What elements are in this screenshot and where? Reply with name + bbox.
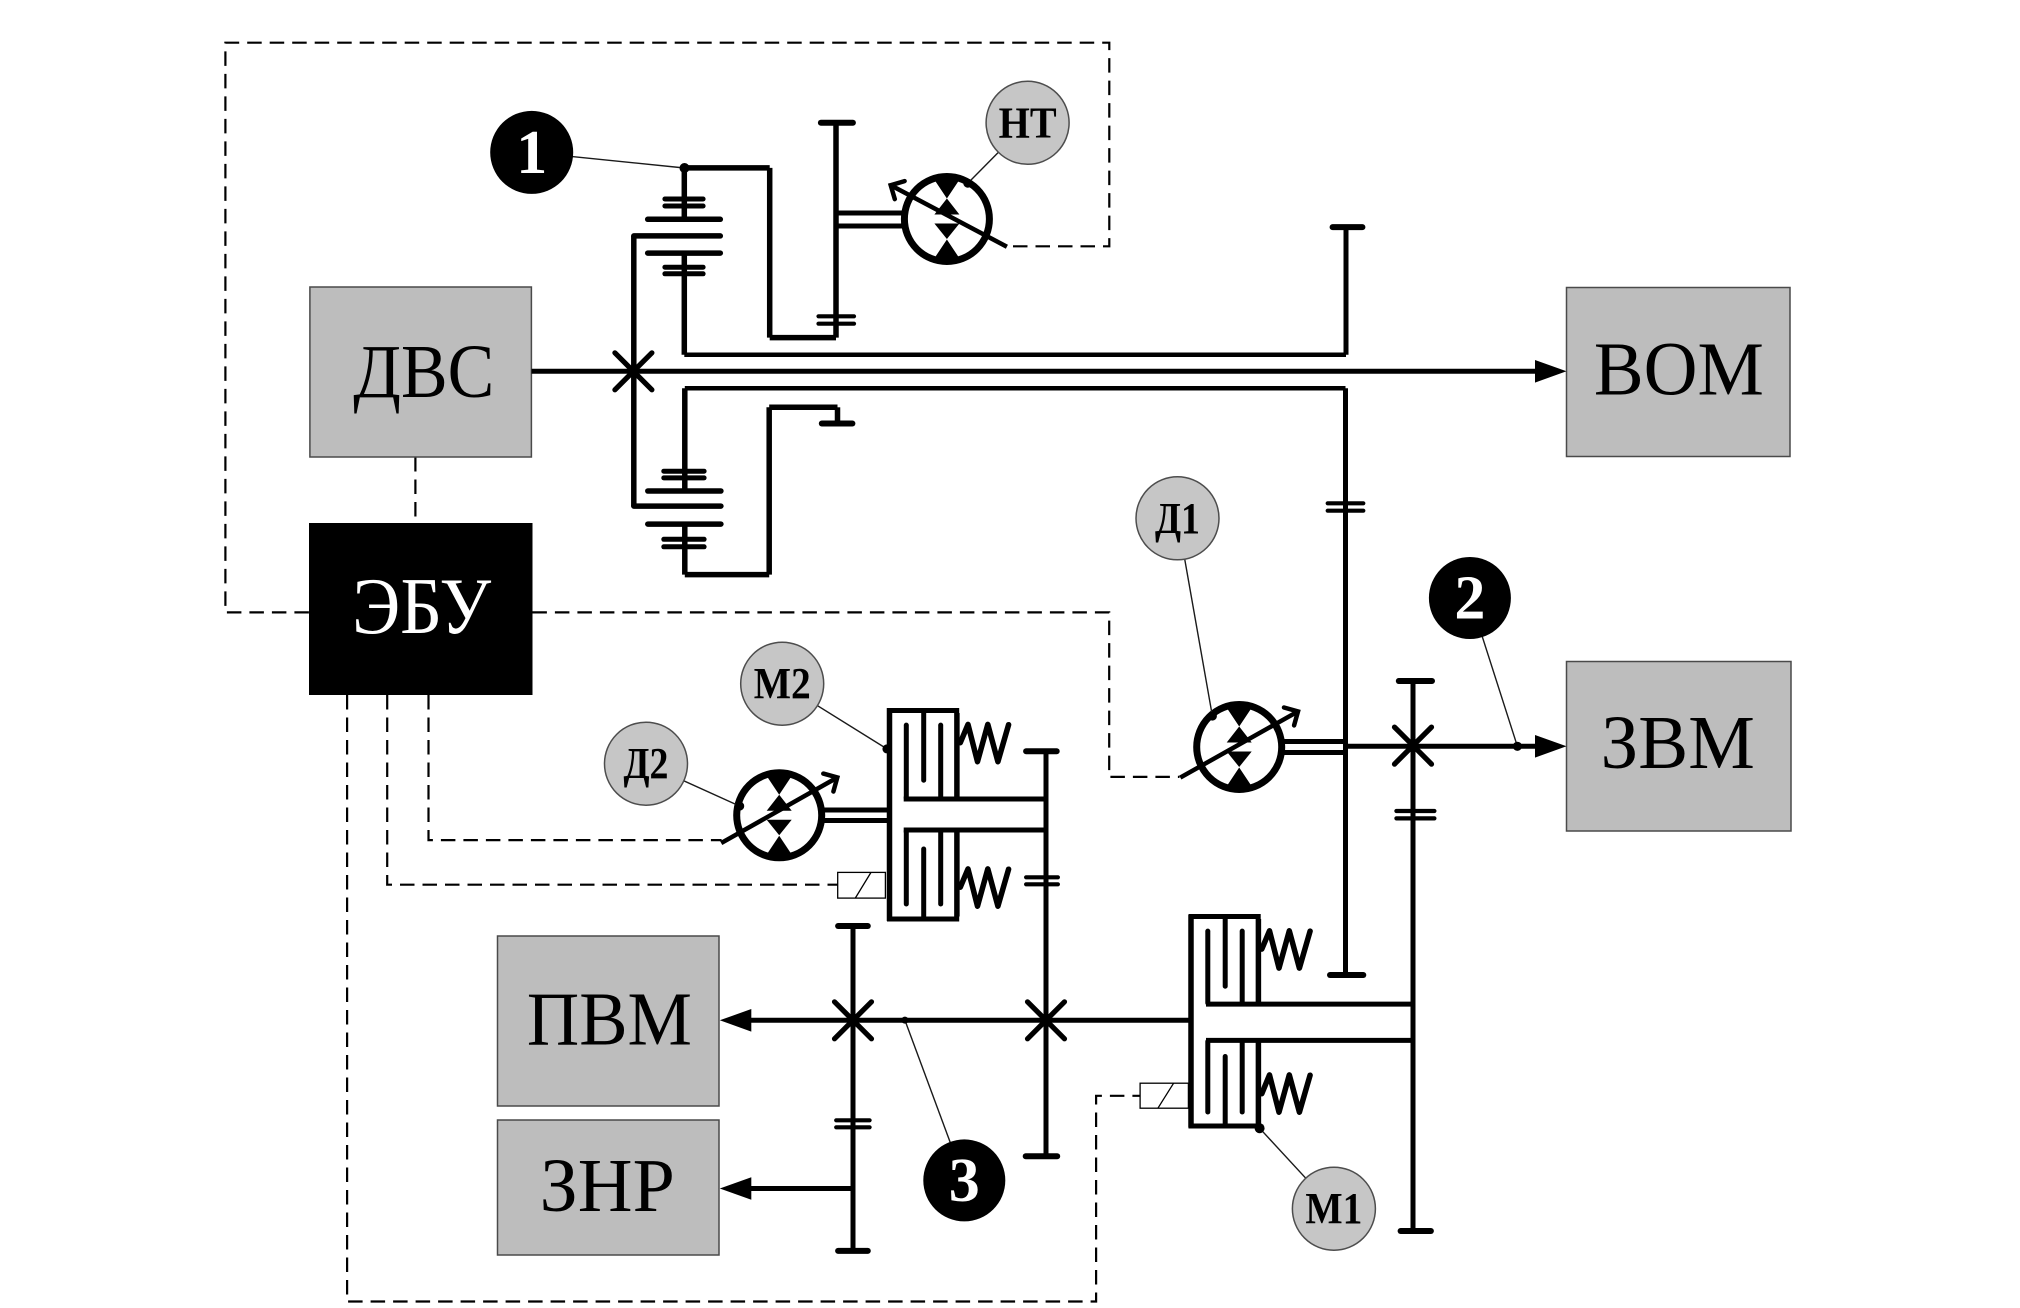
wire — [766, 407, 772, 574]
wire: vertical shaft М2 to ПВМ shaft — [1044, 751, 1049, 1156]
leader line from Д2 label — [646, 764, 740, 806]
wire: double line Д2 pump to М2 — [822, 808, 890, 813]
gear wide bar — [648, 217, 721, 223]
node dot on Д1 pump — [1208, 712, 1217, 721]
clutch М1 spring bottom — [1262, 1075, 1310, 1112]
clutch М2 outer disc top — [921, 713, 926, 780]
bearing T-top — [1026, 748, 1057, 754]
dashed control line ЭБУ to М2 solenoid — [387, 695, 838, 885]
dashed link ДВС to ЭБУ — [414, 457, 416, 523]
node dot on НТ pump — [963, 179, 972, 188]
hydraulic pump-motor Д1 — [1180, 705, 1298, 790]
clutch М2 right wall bottom — [954, 831, 960, 917]
clutch М2 right wall top — [954, 713, 960, 798]
marker circle 2 — [1429, 557, 1511, 639]
marker circle 1 — [490, 111, 573, 194]
label circle НТ — [986, 81, 1069, 164]
solenoid actuator of М1 — [1140, 1083, 1188, 1108]
clutch М1 right wall top — [1256, 919, 1262, 1003]
clutch М2 spring top — [960, 724, 1008, 761]
label circle Д2 — [605, 722, 688, 805]
svg-text:Д2: Д2 — [624, 739, 669, 788]
node 3 dot — [901, 1017, 908, 1024]
gear wide bar — [648, 250, 721, 256]
node dot on М1 clutch — [1255, 1123, 1265, 1133]
wire — [767, 168, 773, 338]
hydraulic pump-motor НТ — [891, 177, 1007, 262]
wire: main shaft ДВС to ВОМ — [532, 369, 1541, 374]
clutch М1 outer disc top — [1223, 919, 1228, 986]
bearing X on ПВМ shaft left — [835, 1002, 872, 1039]
gear wide bar — [634, 233, 721, 239]
wire — [685, 572, 769, 578]
wire: upper sleeve shaft — [684, 352, 1346, 357]
svg-text:Д1: Д1 — [1155, 494, 1200, 543]
block ВОМ — [1567, 288, 1791, 457]
svg-text:1: 1 — [516, 119, 547, 187]
leader line from Д1 label — [1178, 518, 1213, 716]
bearing X on ЗВМ shaft — [1395, 727, 1432, 764]
svg-text:ВОМ: ВОМ — [1594, 328, 1764, 412]
clutch М2 drum bottom bar — [887, 917, 959, 922]
wire — [769, 405, 837, 411]
clutch М2 outer disc bottom — [921, 849, 926, 917]
wire: front axle shaft to ПВМ — [748, 1018, 1191, 1023]
clutch М1 drum bottom bar — [1189, 1124, 1261, 1129]
arrowhead into ПВМ — [720, 1009, 752, 1032]
clutch М2 inner discs top — [904, 725, 909, 798]
wire: shaft to ЗНР — [748, 1186, 853, 1191]
svg-text:ЗНР: ЗНР — [540, 1144, 675, 1228]
svg-text:М1: М1 — [1305, 1184, 1362, 1233]
svg-text:3: 3 — [949, 1147, 980, 1215]
label circle Д1 — [1136, 477, 1219, 560]
gear coupling = on pump shaft — [819, 314, 855, 318]
bearing X on engine shaft — [615, 353, 652, 390]
bearing T-bottom — [838, 1248, 868, 1254]
node dot on М2 clutch — [882, 744, 891, 753]
svg-text:ДВС: ДВС — [353, 330, 494, 414]
wire: vertical gear shaft right lower — [1343, 388, 1348, 975]
dashed control line ЭБУ right to Д1 pump — [532, 612, 1179, 777]
bearing T-bottom — [1330, 972, 1363, 978]
solenoid actuator of М2 — [838, 872, 886, 898]
clutch М1 outer disc bottom — [1223, 1057, 1228, 1125]
svg-text:2: 2 — [1454, 565, 1485, 633]
wire — [770, 335, 836, 341]
gear wide bar — [634, 503, 721, 509]
bearing T-bottom — [1401, 1228, 1431, 1234]
block ЗВМ — [1567, 662, 1792, 832]
marker circle 3 — [923, 1139, 1005, 1221]
leader line from НТ label — [968, 123, 1028, 183]
node 1 dot — [680, 163, 690, 173]
wire: vertical shaft ПВМ/ЗНР — [851, 926, 856, 1251]
block ЭБУ (controller, black) — [309, 523, 533, 695]
dashed control line ЭБУ to М1 solenoid — [347, 695, 1140, 1302]
svg-text:НТ: НТ — [999, 98, 1057, 147]
svg-text:ЭБУ: ЭБУ — [352, 563, 491, 651]
bearing T-top of pump shaft — [821, 120, 853, 126]
clutch М2 spring bottom — [960, 869, 1008, 906]
node dot on Д2 pump — [735, 802, 744, 811]
gear pair bars upper — [664, 469, 704, 474]
wire: left vertical through X — [631, 236, 637, 506]
block ПВМ — [498, 936, 720, 1106]
gear pair bars upper — [665, 197, 703, 202]
variable displacement arrow of Д2 — [721, 778, 837, 844]
svg-text:ПВМ: ПВМ — [527, 978, 692, 1062]
gear coupling = — [1396, 809, 1434, 813]
gear pair bars lower — [665, 265, 703, 270]
wire: lower sleeve shaft — [685, 386, 1346, 391]
clutch М2 drum top bar — [887, 708, 959, 713]
dashed control line ЭБУ to Д2 pump — [429, 695, 722, 840]
clutch М1 drum left wall — [1188, 915, 1194, 1128]
label circle М2 — [741, 642, 824, 725]
wire: shaft to ЗВМ — [1346, 744, 1541, 749]
wire: double line to НТ pump — [836, 211, 905, 216]
gear coupling = — [836, 1118, 869, 1122]
clutch М2 inner discs bottom — [904, 831, 909, 904]
dashed control frame top (ЭБУ to planetary unit and НТ pump) — [225, 43, 1109, 613]
wire: НТ pump drive shaft vertical — [833, 123, 839, 338]
bearing T-top — [838, 923, 868, 929]
arrowhead into ЗНР — [720, 1177, 752, 1200]
clutch М1 hub plate — [1206, 1002, 1413, 1007]
leader line from М2 label — [782, 684, 887, 749]
variable displacement arrow of НТ — [891, 185, 1007, 247]
gear coupling = — [1026, 875, 1058, 879]
clutch М2 drum left wall — [887, 708, 893, 921]
bearing T-top — [1399, 678, 1432, 684]
leader line from marker 3 — [905, 1020, 964, 1180]
svg-text:М2: М2 — [754, 659, 811, 708]
gear wide bar — [648, 488, 721, 494]
block ДВС (engine) — [310, 287, 532, 457]
clutch М1 right wall bottom — [1256, 1042, 1262, 1125]
arrowhead into ЗВМ — [1535, 735, 1567, 758]
clutch М1 inner discs top — [1205, 931, 1210, 1003]
upper gear unit: vertical shaft — [682, 168, 688, 219]
bearing T-top — [1333, 224, 1363, 230]
gear wide bar — [648, 521, 721, 527]
clutch М1 spring top — [1262, 931, 1310, 968]
bearing T below — [822, 421, 853, 427]
wire: vertical shaft of ЗВМ gear — [1411, 681, 1416, 1231]
clutch М1 inner discs bottom — [1205, 1042, 1210, 1113]
hydraulic pump-motor Д2 — [721, 773, 837, 858]
variable displacement arrow of Д1 — [1180, 711, 1298, 777]
leader line from marker 1 — [532, 152, 685, 168]
gear coupling = — [1328, 501, 1364, 505]
clutch М1 drum top bar — [1189, 914, 1261, 919]
node 2 dot — [1513, 742, 1522, 751]
bearing X on ПВМ shaft right — [1028, 1002, 1065, 1039]
leader line from marker 2 — [1470, 598, 1518, 746]
upper gear unit: input link from node 1 — [685, 165, 770, 171]
bearing T-bottom — [1026, 1153, 1058, 1159]
wire — [835, 407, 841, 423]
lower gear unit: vertical shaft — [682, 388, 688, 491]
gear pair bars lower — [664, 537, 704, 542]
svg-text:ЗВМ: ЗВМ — [1601, 701, 1755, 785]
leader line from М1 label — [1260, 1128, 1334, 1209]
label circle М1 — [1292, 1167, 1375, 1250]
arrowhead into ВОМ — [1535, 360, 1567, 383]
wire: vertical gear shaft right upper — [1344, 227, 1349, 355]
wire: double line to Д1 pump — [1282, 739, 1346, 744]
clutch М2 hub plate — [904, 797, 1046, 802]
block ЗНР — [498, 1120, 720, 1255]
